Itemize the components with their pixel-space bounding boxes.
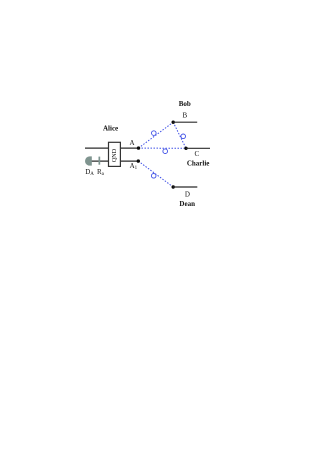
svg-text:A1: A1 [130, 162, 138, 171]
wire upper Alice rail (left of QND) [85, 147, 109, 149]
svg-text:C: C [194, 150, 199, 158]
svg-text:QND: QND [111, 148, 118, 162]
wire lower Alice rail (QND to node A1) [120, 160, 138, 162]
node B [172, 121, 175, 124]
node A1 [137, 159, 140, 162]
quantum channel A to C (dashed) [139, 147, 187, 149]
photon pair symbol on A-B channel [152, 131, 157, 136]
node D [172, 185, 175, 188]
wire lower Alice rail (detector to QND) [91, 160, 109, 162]
photon pair symbol on A1-D channel [151, 174, 156, 179]
svg-text:Dean: Dean [179, 200, 195, 208]
svg-text:DA: DA [85, 168, 94, 177]
wire upper Alice rail (QND to node A) [120, 147, 139, 149]
QND box [109, 142, 121, 166]
photon pair symbol on B-C channel [181, 134, 186, 139]
quantum channel A1 to D (dashed) [138, 161, 173, 187]
photon pair symbol on A-C channel [163, 149, 168, 154]
quantum channel A to B (dashed) [139, 122, 174, 148]
node C [184, 147, 187, 150]
svg-text:B: B [182, 112, 187, 120]
svg-text:Bob: Bob [179, 100, 191, 108]
svg-text:Charlie: Charlie [187, 159, 210, 167]
quantum channel B to C (dashed) [173, 122, 186, 148]
node A [137, 146, 140, 149]
svg-text:Alice: Alice [103, 125, 118, 133]
wire Charlie rail [186, 147, 210, 149]
svg-text:A: A [129, 139, 134, 147]
wire Bob rail [173, 121, 197, 123]
detector D_A (half-disc) [85, 156, 92, 165]
wire Dean rail [173, 186, 197, 188]
attenuator tick R_a [99, 157, 101, 165]
svg-text:D: D [185, 190, 190, 198]
svg-text:Ra: Ra [97, 168, 105, 177]
